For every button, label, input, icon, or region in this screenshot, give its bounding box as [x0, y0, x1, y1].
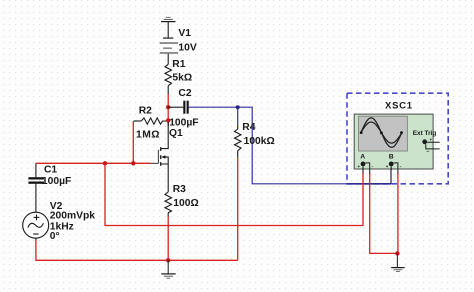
wire: scope B- probe (red): [397, 173, 399, 253]
wire: R4 top lead: [237, 125, 239, 129]
wire: source down to R3: [167, 166, 169, 192]
svg-text:+: +: [386, 164, 389, 169]
svg-text:100kΩ: 100kΩ: [244, 136, 275, 147]
svg-text:R1: R1: [172, 59, 185, 70]
svg-text:C2: C2: [178, 88, 191, 99]
wire: R2 right to node: [166, 120, 168, 122]
ext trig terminal: [422, 139, 427, 144]
node junction bottom/ground: [166, 258, 170, 262]
wire: input net (red, C1 to gate): [36, 162, 151, 164]
svg-text:R4: R4: [242, 122, 255, 133]
svg-text:100Ω: 100Ω: [173, 198, 198, 209]
wire: red net R1/C2/R2/drain: [167, 94, 169, 126]
svg-text:+: +: [358, 164, 361, 169]
svg-text:Ext Trig: Ext Trig: [413, 130, 437, 137]
svg-text:B: B: [389, 154, 394, 161]
gate lead: [151, 162, 159, 164]
transistor Q1 (NMOS): [151, 122, 169, 166]
wire: C2 left lead: [168, 106, 183, 108]
ground GND2 (scope): [391, 253, 404, 271]
channel dashes: [160, 147, 161, 151]
wire: bottom ground net (red): [36, 241, 238, 261]
wire: R3 to ground net (red): [167, 217, 169, 261]
svg-text:0°: 0°: [50, 231, 60, 242]
node junction input/R2: [131, 161, 135, 165]
trace 2: [361, 122, 402, 143]
wire: blue output net C2 to corner: [189, 107, 391, 184]
terminal A: [361, 162, 366, 167]
gate bar: [157, 150, 159, 164]
body arrow: [162, 156, 168, 158]
capacitor C2: [183, 101, 188, 114]
svg-text:C1: C1: [44, 164, 57, 175]
wire: top ground to V1: [167, 22, 169, 38]
wire: R3 bottom lead: [167, 213, 169, 217]
node junction at R2/drain: [166, 118, 170, 122]
wire: V2 bottom lead: [35, 238, 37, 240]
svg-text:10V: 10V: [178, 42, 196, 53]
node junction input/A+: [103, 161, 107, 165]
scope body panel: [354, 114, 433, 169]
wire: R4 bottom lead: [237, 151, 239, 157]
resistor R4: [235, 129, 242, 151]
terminal B: [389, 162, 394, 167]
wire: C1 to V2: [35, 184, 37, 213]
resistor R2: [134, 118, 166, 124]
scope screen: [359, 116, 408, 151]
svg-text:XSC1: XSC1: [385, 101, 413, 112]
svg-text:200mVpk: 200mVpk: [50, 211, 95, 222]
svg-text:R3: R3: [173, 184, 186, 195]
wire: blue drop to R4: [237, 107, 239, 125]
trace 1: [361, 118, 402, 148]
svg-text:100µF: 100µF: [169, 118, 198, 129]
wire: R4 to bottom net (red): [237, 157, 239, 260]
battery V1: [160, 38, 178, 54]
wire: R2 left down to input net (red): [132, 121, 134, 163]
node junction C2/R4 (blue): [236, 105, 240, 109]
svg-text:V1: V1: [178, 28, 191, 39]
capacitor C1: [28, 177, 44, 184]
svg-text:A: A: [360, 154, 365, 161]
svg-text:Q1: Q1: [169, 128, 183, 139]
terminal leads to wires: [362, 166, 364, 170]
wire: R1 to node (black lead part): [167, 86, 169, 94]
resistor R3: [165, 192, 172, 213]
node junction at R1/C2: [166, 105, 170, 109]
drain lead: [161, 122, 168, 149]
svg-text:100µF: 100µF: [42, 176, 71, 187]
svg-text:5kΩ: 5kΩ: [172, 73, 192, 84]
wire: scope A+ probe (red): [105, 163, 363, 225]
svg-text:1MΩ: 1MΩ: [136, 129, 160, 140]
oscilloscope XSC1: [354, 101, 440, 170]
ground GND-top (inverted, above V1): [161, 17, 176, 21]
wire: scope A- probe (red): [370, 173, 398, 253]
svg-text:+: +: [430, 137, 433, 142]
svg-text:R2: R2: [139, 105, 152, 116]
wire: V1 to R1: [167, 54, 169, 65]
resistor R1: [165, 64, 172, 85]
wire: C1 top lead: [35, 163, 37, 177]
source lead: [161, 157, 168, 167]
source V2 (AC): [23, 212, 49, 238]
ground GND1: [161, 260, 175, 278]
node junction scope ground: [395, 251, 399, 255]
trace markers: [360, 131, 363, 134]
oscilloscope XSC1 dashed selection box: [347, 93, 448, 184]
